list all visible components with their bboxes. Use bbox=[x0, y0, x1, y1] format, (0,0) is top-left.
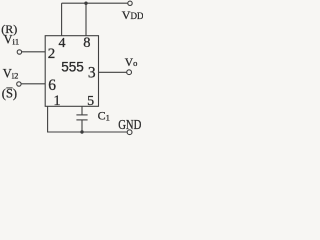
wire Vi2 terminal to pin6 bbox=[21, 83, 45, 85]
svg-text:8: 8 bbox=[83, 35, 90, 51]
terminal VDD bbox=[128, 1, 132, 5]
wire pin8 to VDD rail vertical bbox=[85, 3, 87, 36]
svg-text:555: 555 bbox=[61, 60, 84, 75]
svg-text:C1: C1 bbox=[98, 108, 110, 122]
svg-text:5: 5 bbox=[87, 94, 94, 109]
wire capacitor to ground rail bbox=[81, 120, 83, 132]
svg-text:2: 2 bbox=[48, 46, 56, 62]
svg-text:(S): (S) bbox=[2, 87, 17, 101]
capacitor C1 plates bbox=[76, 114, 87, 116]
svg-text:4: 4 bbox=[59, 36, 66, 51]
wire VDD rail horizontal bbox=[62, 2, 128, 4]
wire Vi1 terminal to pin2 bbox=[22, 51, 46, 53]
wire pin1 down to ground rail bbox=[48, 106, 128, 132]
svg-text:3: 3 bbox=[88, 65, 96, 82]
svg-text:GND: GND bbox=[118, 117, 141, 132]
terminal GND bbox=[127, 130, 132, 135]
wire pin4 to VDD rail vertical bbox=[61, 3, 63, 36]
wire pin3 to Vo terminal bbox=[99, 71, 127, 73]
svg-text:Vo: Vo bbox=[125, 57, 138, 69]
svg-text:VDD: VDD bbox=[122, 8, 143, 22]
svg-text:1: 1 bbox=[53, 93, 60, 109]
junction VDD rail / pin8 bbox=[84, 2, 87, 5]
svg-text:6: 6 bbox=[48, 77, 56, 94]
terminal Vo bbox=[127, 70, 132, 75]
terminal Vi2 bbox=[17, 82, 21, 86]
svg-text:Vi2: Vi2 bbox=[3, 66, 19, 80]
terminal Vi1 bbox=[17, 50, 21, 54]
wire pin5 down to capacitor bbox=[81, 106, 83, 115]
junction ground rail / C1 bbox=[80, 130, 83, 133]
op-amp U1 : 555 timer IC body bbox=[45, 36, 98, 107]
overline on S bbox=[6, 87, 12, 89]
